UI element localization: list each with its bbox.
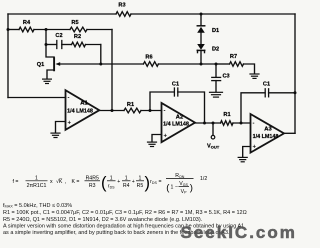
svg-text:-: - <box>164 109 166 115</box>
svg-text:R3: R3 <box>89 183 96 189</box>
wire R5 right lead to corner <box>87 29 112 31</box>
svg-text:2πR1C1: 2πR1C1 <box>27 183 47 189</box>
diode D2 zener <box>197 44 205 53</box>
node dot A1 output <box>111 109 114 112</box>
svg-text:): ) <box>190 182 193 193</box>
svg-text:-: - <box>253 121 255 127</box>
svg-text:√K̅: √K̅ <box>56 178 63 185</box>
wire C1 right to output border <box>269 92 295 94</box>
ground A1 noninverting <box>51 133 60 137</box>
wire C3 node to R7 <box>216 63 230 65</box>
svg-text:Q1: Q1 <box>37 62 44 68</box>
wire R2 right lead to corner <box>86 44 101 46</box>
node VOUT terminal circle <box>211 135 215 139</box>
svg-text:+: + <box>117 179 120 185</box>
wire vertical R2 corner down to gate line <box>100 45 102 65</box>
svg-text:R7: R7 <box>230 54 237 60</box>
svg-text:C1: C1 <box>172 81 179 87</box>
wire top feedback line right of R3 <box>131 13 295 15</box>
wire vertical from R5 down to A1 output node <box>111 30 113 111</box>
svg-text:C3: C3 <box>223 73 230 79</box>
wire A3 feedback loop with C1 <box>241 93 265 123</box>
svg-text:A2: A2 <box>176 114 183 120</box>
node dot A2 inverting <box>149 109 152 112</box>
wire R7 right lead <box>244 64 255 74</box>
svg-text:R1 = 100K pot., C1 = 0.0047μF,: R1 = 100K pot., C1 = 0.0047μF, C2 = 0.01… <box>3 210 247 216</box>
svg-text:A3: A3 <box>264 127 272 133</box>
node dot A2 output C1 <box>203 122 206 125</box>
svg-text:C2: C2 <box>55 33 62 39</box>
wire C2 left lead <box>46 44 57 46</box>
svg-text:1/4 LM148: 1/4 LM148 <box>67 108 93 114</box>
svg-text:1 −: 1 − <box>171 185 178 191</box>
node dot VOUT tap <box>212 122 215 125</box>
resistor R2 <box>72 42 86 47</box>
wire top feedback line left of R3 <box>8 13 116 15</box>
wire A1 noninverting ground lead <box>56 122 66 133</box>
capacitor C1 over A3 <box>265 89 268 97</box>
svg-text:R4: R4 <box>23 20 31 26</box>
resistor R3 <box>116 12 131 17</box>
ground C3 <box>210 92 223 97</box>
op-amp A1 <box>66 90 100 130</box>
svg-text:f =: f = <box>13 179 19 185</box>
node dot left border R4 <box>7 28 10 31</box>
svg-text:C1: C1 <box>263 81 270 87</box>
capacitor C1 over A2 <box>174 88 177 96</box>
wire Q1 drain lead <box>46 45 54 59</box>
svg-text:R5: R5 <box>137 183 144 189</box>
resistor R5 <box>70 27 87 32</box>
svg-text:1/4 LM148: 1/4 LM148 <box>253 134 279 140</box>
node dot R4 R5 junction <box>45 28 48 31</box>
transistor Q1 gate arrow <box>55 62 60 66</box>
svg-text:rDS: rDS <box>108 184 115 190</box>
svg-text:+: + <box>132 179 135 185</box>
svg-text:R4R5: R4R5 <box>86 175 99 181</box>
node dot diode bottom <box>200 63 203 66</box>
resistor R1 second <box>221 121 234 126</box>
svg-text:RON: RON <box>175 173 185 179</box>
wire C1 right to A2 output <box>178 92 205 123</box>
svg-text:R4: R4 <box>123 183 130 189</box>
wire right border up to top line <box>294 14 296 133</box>
capacitor C3 <box>212 77 221 80</box>
svg-text:VGS: VGS <box>179 181 188 187</box>
op-amp A3 <box>251 114 285 153</box>
transistor Q1 source lead <box>47 70 54 79</box>
formula frequency equation <box>13 173 208 195</box>
node dot A3 inverting <box>240 122 243 125</box>
wire R4 line left lead <box>8 29 19 31</box>
svg-text:fMAX = 5.0kHz, THD ≤ 0.03%: fMAX = 5.0kHz, THD ≤ 0.03% <box>3 203 72 209</box>
svg-text:K =: K = <box>72 179 80 185</box>
wire left border down to A1 input <box>7 14 9 98</box>
wire A2 noninverting ground lead <box>152 135 162 142</box>
svg-text:1: 1 <box>139 175 142 181</box>
svg-text:+: + <box>164 133 168 139</box>
svg-text:VOUT: VOUT <box>207 143 220 149</box>
wire D2 to gate line <box>200 51 202 64</box>
wire A3 output to right border <box>284 132 295 134</box>
resistor R1 first <box>124 108 141 113</box>
wire VOUT stub <box>212 123 214 135</box>
wire R1 to A2 inverting input <box>141 110 162 112</box>
resistor R6 <box>143 62 158 67</box>
wire A2 feedback loop with C1 <box>150 92 174 111</box>
node dot C2 branch <box>45 43 48 46</box>
svg-text:,: , <box>65 179 66 185</box>
svg-text:R1: R1 <box>223 112 230 118</box>
ground Q1 source <box>43 79 52 83</box>
svg-text:R5 = 240Ω, Q1 = NS5102, D1 = 1: R5 = 240Ω, Q1 = NS5102, D1 = 1N914, D2 =… <box>3 217 203 223</box>
svg-text:R6: R6 <box>145 54 152 60</box>
svg-text:1: 1 <box>125 175 128 181</box>
svg-text:1: 1 <box>35 175 38 181</box>
ground A3 noninverting <box>238 157 247 161</box>
node dot right border C1 <box>294 91 297 94</box>
wire C3 to ground <box>215 81 217 92</box>
wire diode branch top <box>200 14 202 25</box>
svg-text:+: + <box>253 145 257 151</box>
transistor Q1 channel bar <box>53 58 55 70</box>
svg-text:R2: R2 <box>74 34 81 40</box>
wire A1 output to R1 <box>99 110 124 112</box>
wire R6 to diode node <box>158 63 216 65</box>
wire A3 noninverting ground lead <box>243 147 251 157</box>
resistor R7 <box>230 62 244 67</box>
wire C2 to R2 <box>62 44 72 46</box>
node dot diode top <box>200 13 203 16</box>
ground A2 noninverting <box>148 142 157 146</box>
wire C3 drop <box>215 64 217 77</box>
svg-text:D2: D2 <box>212 47 219 53</box>
svg-text:1: 1 <box>110 175 113 181</box>
op-amp A2 <box>162 103 196 142</box>
capacitor C2 <box>57 41 62 49</box>
diode D1 <box>197 26 205 33</box>
svg-text:R5: R5 <box>71 20 78 26</box>
wire R1 to A3 inverting input <box>233 122 251 124</box>
wire node drop to C2 branch <box>45 30 47 45</box>
resistor R4 <box>19 27 34 32</box>
svg-text:x: x <box>50 179 53 185</box>
wire R4 to R5 <box>34 29 70 31</box>
svg-text:SeekIC.com: SeekIC.com <box>181 223 297 242</box>
node dot C3 <box>215 63 218 66</box>
wire Q1 gate line to R6 <box>60 63 144 65</box>
svg-text:· rDS: · rDS <box>147 179 158 185</box>
svg-text:1/2: 1/2 <box>200 176 207 182</box>
svg-text:A1: A1 <box>80 100 88 106</box>
svg-text:VP: VP <box>181 189 187 195</box>
ground R7 <box>250 74 259 78</box>
svg-text:1/4 LM148: 1/4 LM148 <box>163 122 189 128</box>
svg-text:=: = <box>159 179 162 185</box>
node dot gate line R2 <box>99 63 102 66</box>
svg-text:R3: R3 <box>118 2 125 8</box>
svg-text:R1: R1 <box>127 102 134 108</box>
svg-text:(: ( <box>101 174 107 192</box>
svg-text:-: - <box>68 96 70 102</box>
svg-text:+: + <box>68 120 72 126</box>
wire between D1 and D2 <box>200 33 202 44</box>
svg-text:D1: D1 <box>212 28 219 34</box>
wire A1 inverting input line <box>8 97 66 99</box>
wire A2 output line <box>195 122 221 124</box>
